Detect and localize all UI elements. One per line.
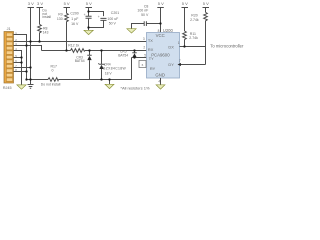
node row2/CR3 [88,49,90,51]
diode CR3 BAT54 [87,51,91,80]
svg-text:18 V: 18 V [105,71,113,75]
connector J1 (RJ45) body [4,32,14,84]
ground (J1 shield, yellow triangle) [17,85,26,89]
node row1/3V#1 [29,40,31,42]
wire pin8 stub [14,71,27,73]
svg-text:7: 7 [179,59,181,63]
svg-text:130: 130 [57,17,63,21]
svg-text:BAT54: BAT54 [75,59,85,63]
pin 6 box [139,61,146,68]
node shield a [20,56,22,58]
svg-text:DY: DY [168,62,174,67]
ground (below C200/C201) [84,28,93,35]
svg-text:143: 143 [43,30,49,34]
wire pin7 stub [14,67,31,69]
svg-text:DX: DX [168,45,174,50]
pin 4 number + GND wire [160,78,162,85]
svg-text:5 V: 5 V [203,1,209,6]
node 5V cap rail [87,10,89,12]
wire pin3 jog [14,46,42,51]
ground (bottom row) [105,80,114,89]
node pin5 wire [133,56,135,58]
svg-text:J1: J1 [7,27,11,31]
svg-text:C201: C201 [111,11,119,15]
resistor R12 [71,49,86,53]
power 5V #5 [203,8,210,13]
node shield b [20,61,22,63]
wire D1 (DX to microcontroller) [180,46,206,48]
arrow into DY pin [178,63,181,66]
J1 pin numbers [15,31,17,72]
svg-text:5 V: 5 V [182,1,188,6]
resistor R17 (do not install) [48,78,59,82]
svg-text:16 V: 16 V [71,22,79,26]
ground (below C8) [127,29,136,33]
svg-text:1: 1 [178,41,180,45]
svg-text:100 uF: 100 uF [107,17,118,21]
node row1/R8 [38,40,40,42]
svg-text:2: 2 [143,46,145,50]
node bottom row gnd [108,78,110,80]
power 5V #3 [157,8,164,33]
node bottom row CR4 [100,78,102,80]
capacitor C200 [86,12,92,28]
wire pin6 stub [14,62,22,64]
junction dots [20,10,185,80]
svg-text:C200: C200 [70,12,78,16]
wire bottom row [27,79,132,81]
capacitor C201 [100,18,106,27]
wire D2 (DY line) [180,64,206,66]
svg-text:3 V: 3 V [28,1,34,6]
node pin7 row [29,66,31,68]
svg-text:Do not install: Do not install [41,82,61,86]
svg-text:RY: RY [150,66,156,71]
svg-text:50 V: 50 V [109,22,117,26]
wire row2 (to IC pin 2) [42,50,147,52]
svg-text:PCA9600: PCA9600 [151,53,170,58]
node pin8 row [25,70,27,72]
svg-text:3 V: 3 V [37,1,43,6]
power 5V #2 [86,8,93,12]
wire pin1 jog riser [14,35,27,80]
power 5V #4 [182,8,189,32]
node C8/VCC [159,22,161,24]
ground (below IC) [156,85,165,89]
svg-text:2.74k: 2.74k [190,18,199,22]
wire pin5 of IC [132,58,147,80]
svg-text:0: 0 [52,69,54,73]
node pin3 riser [25,44,27,46]
J1 pin contact squares [6,33,12,82]
resistor R20 [204,12,208,64]
svg-text:To microcontroller: To microcontroller [210,44,244,49]
resistor R8 (do not install) [38,24,42,41]
node bottom row b [29,78,31,80]
svg-text:+: + [84,13,86,17]
power 5V #1 [64,8,71,14]
svg-text:RX: RX [148,47,154,52]
svg-text:+: + [98,15,100,19]
IC U200 PCA9600 [147,33,180,79]
svg-text:R12 1k: R12 1k [68,44,79,48]
svg-text:5: 5 [144,53,146,57]
svg-text:5 V: 5 V [64,1,70,6]
svg-text:8: 8 [158,29,160,33]
resistor R9 [65,13,69,50]
svg-text:RJ45: RJ45 [3,86,12,90]
svg-text:U200: U200 [163,28,174,33]
svg-text:1 µF: 1 µF [71,17,78,21]
svg-text:install: install [42,15,51,19]
ground (3-bar, chassis) [28,80,34,89]
svg-text:VCC: VCC [156,33,165,38]
svg-text:5 V: 5 V [158,1,164,6]
wire top cap rail [89,12,104,17]
power 3V #1 [28,8,35,80]
node bottom row a [25,78,27,80]
wire row1 (to IC pin 3) [14,41,147,43]
wire pin5 stub [14,57,22,59]
svg-text:*All resistors 1%: *All resistors 1% [120,85,150,90]
node cap gnd [87,26,89,28]
svg-text:4: 4 [158,79,160,83]
svg-text:GND: GND [155,72,165,77]
svg-text:BAT54: BAT54 [118,53,128,57]
diode CR5 BAT54 [132,51,136,58]
node row2/CR5 [133,49,135,51]
svg-text:TY: TY [149,56,154,61]
svg-text:2.74k: 2.74k [189,36,198,40]
power 3V #2 [37,8,44,25]
svg-text:BZX84C18W: BZX84C18W [103,67,126,71]
svg-text:50 V: 50 V [141,13,149,17]
svg-text:TX: TX [148,38,153,43]
wire pin4 stub [14,51,22,85]
resistor R11 [183,31,187,47]
svg-text:5 V: 5 V [86,1,92,6]
capacitor C8 [132,21,161,29]
svg-text:3: 3 [143,37,145,41]
node row2/R9 [65,49,67,51]
node row2/CR4 [100,49,102,51]
wire cap bottoms join [89,21,104,28]
node D1/R11 [183,45,185,47]
diode CR4 BZX84C18W (zener) [98,51,104,80]
